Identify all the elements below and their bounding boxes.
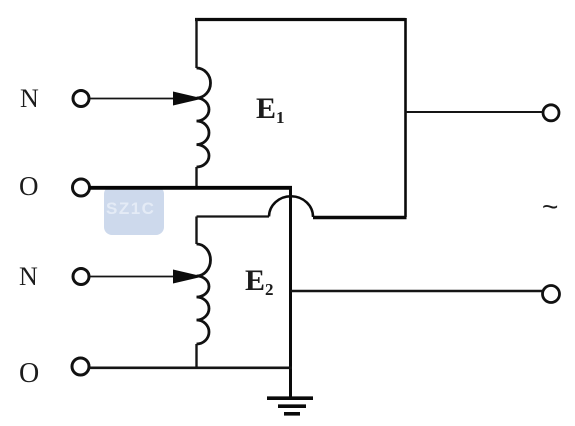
wire: bottom edge of box E1 (right of hop)	[313, 216, 407, 219]
wire: right edge of box E1	[404, 18, 407, 217]
terminal circle T6 (output lower)	[543, 286, 560, 303]
terminal circle T3 (N lower)	[73, 269, 89, 285]
svg-text:N: N	[20, 84, 39, 113]
slider arrow for E2	[89, 270, 203, 284]
watermark	[104, 186, 164, 235]
wire hop over vertical line	[269, 196, 313, 217]
svg-text:E2: E2	[245, 264, 274, 299]
ground symbol	[267, 398, 313, 414]
terminal circle T2 (O upper)	[73, 179, 90, 196]
svg-text:E1: E1	[256, 92, 285, 127]
wire: main vertical line to ground	[289, 187, 292, 398]
terminal circle T4 (O lower)	[72, 358, 89, 375]
svg-text:N: N	[19, 262, 38, 291]
wire: lower horizontal line from terminal O lower	[89, 366, 292, 369]
svg-text:SZ1C: SZ1C	[106, 199, 155, 218]
wire: lower output line	[291, 290, 544, 292]
wire: top edge of box E1	[195, 18, 406, 21]
terminal circle T5 (output upper)	[543, 105, 559, 121]
wire: left edge of lower winding section	[195, 217, 197, 245]
wire: coil E1 bottom to thick line	[195, 167, 197, 189]
svg-text:O: O	[19, 171, 39, 201]
svg-text:~: ~	[542, 191, 558, 222]
winding E2 (coil with 4 humps)	[197, 244, 211, 344]
wire: line y=216 left of hop	[197, 215, 270, 217]
svg-text:O: O	[19, 358, 39, 389]
wire: coil E2 bottom down to lower line	[195, 344, 197, 368]
wire: left edge of box E1 (upper part)	[195, 18, 197, 68]
terminal circle T1 (N upper)	[73, 91, 89, 107]
slider arrow for E1	[89, 92, 203, 106]
winding E1 (coil with 4 humps)	[197, 68, 211, 167]
wire: thick horizontal line from terminal O upper	[89, 186, 292, 190]
wire: upper output line	[406, 111, 544, 113]
